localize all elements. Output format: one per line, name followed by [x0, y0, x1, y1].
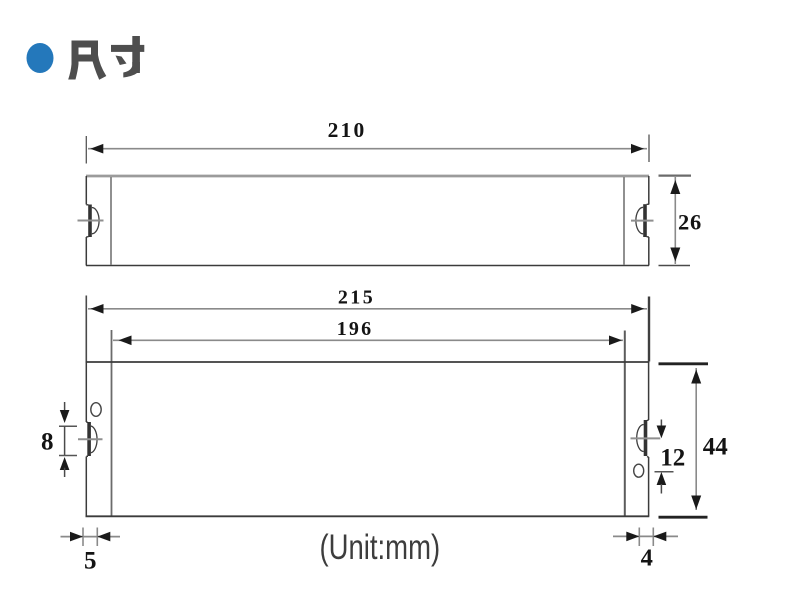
title bullet dot: [27, 43, 54, 73]
dim 8 tick bottom: [59, 455, 77, 457]
dim 196 arrow left: [119, 336, 132, 346]
dim 8 arrow down: [60, 410, 70, 423]
svg-text:196: 196: [337, 318, 374, 340]
dim 8 line upper stub: [64, 402, 66, 414]
dim 44 arrow down: [691, 496, 701, 510]
dim 5 tick right: [96, 528, 98, 547]
dim 215 line: [88, 308, 647, 310]
dim 196 arrow right: [609, 336, 622, 346]
dim 210 extension tick left: [85, 136, 87, 164]
dim 210 line: [88, 148, 647, 150]
dim 196 line: [113, 339, 623, 341]
svg-text:(Unit:mm): (Unit:mm): [319, 527, 440, 567]
dim 12 lower stub: [660, 484, 662, 494]
top view right end-cap line: [623, 177, 625, 265]
dim 26 arrow up: [670, 180, 680, 194]
dim 4 arrow right-pointing: [626, 532, 639, 542]
title glyph 尺: [68, 41, 106, 80]
dim 215 arrow left: [91, 304, 104, 314]
svg-text:210: 210: [328, 118, 367, 142]
dim 8 middle line: [64, 426, 66, 455]
dim 210 extension tick right: [648, 135, 650, 163]
dim 26 line: [674, 177, 676, 264]
dim 196 extension left (runs into body as end-cap line): [111, 330, 113, 516]
dim 215 arrow right: [631, 304, 644, 314]
top view body rectangle: [86, 176, 649, 266]
svg-text:26: 26: [678, 210, 702, 235]
bottom view right screw: [631, 420, 661, 457]
dim 4 tick left: [638, 528, 640, 547]
svg-text:44: 44: [703, 434, 729, 461]
dim 5 tick left: [82, 528, 84, 547]
dim 8 arrow up: [60, 457, 70, 470]
dim 44 arrow up: [691, 370, 701, 384]
bottom view right mounting hole: [634, 464, 644, 477]
bottom view left screw: [78, 422, 103, 456]
bottom view body rectangle: [86, 362, 650, 516]
dim 8 tick top: [59, 425, 77, 427]
dim 26 extension line bottom: [659, 265, 691, 267]
dim 215 extension left: [85, 296, 87, 363]
svg-text:215: 215: [338, 286, 375, 308]
dim 196 extension right (runs into body as end-cap line): [624, 331, 626, 517]
svg-text:12: 12: [660, 445, 685, 472]
dim 12 upper stub: [660, 420, 662, 429]
dim 26 extension line top: [659, 175, 692, 177]
dim 12 tick bottom: [655, 471, 674, 473]
bottom view left mounting hole: [91, 403, 101, 417]
dim 4 tick right: [652, 528, 654, 547]
svg-text:8: 8: [41, 429, 54, 456]
dim 44 extension bottom: [659, 516, 708, 519]
dim 5 arrow right-pointing: [70, 532, 83, 542]
title glyph 寸: [111, 36, 144, 78]
top view left screw: [78, 205, 104, 238]
top view right screw: [631, 204, 654, 237]
dim 215 extension right: [648, 297, 650, 362]
svg-text:4: 4: [641, 544, 653, 571]
dim 8 line lower stub: [64, 468, 66, 477]
dim 26 arrow down: [670, 248, 680, 262]
svg-text:5: 5: [84, 548, 97, 575]
dim 12 arrow up: [657, 472, 667, 485]
dim 12 arrow down: [657, 426, 667, 439]
dim 44 line: [695, 368, 697, 510]
top view left end-cap line: [110, 177, 112, 265]
dim 5 arrow left-pointing: [97, 532, 110, 542]
dim 210 arrow right: [631, 144, 644, 154]
dim 5 line: [61, 536, 121, 538]
dim 4 arrow left-pointing: [653, 532, 666, 542]
dim 4 line: [613, 535, 678, 537]
dim 210 arrow left: [90, 144, 103, 154]
dim 44 extension top: [659, 362, 709, 365]
